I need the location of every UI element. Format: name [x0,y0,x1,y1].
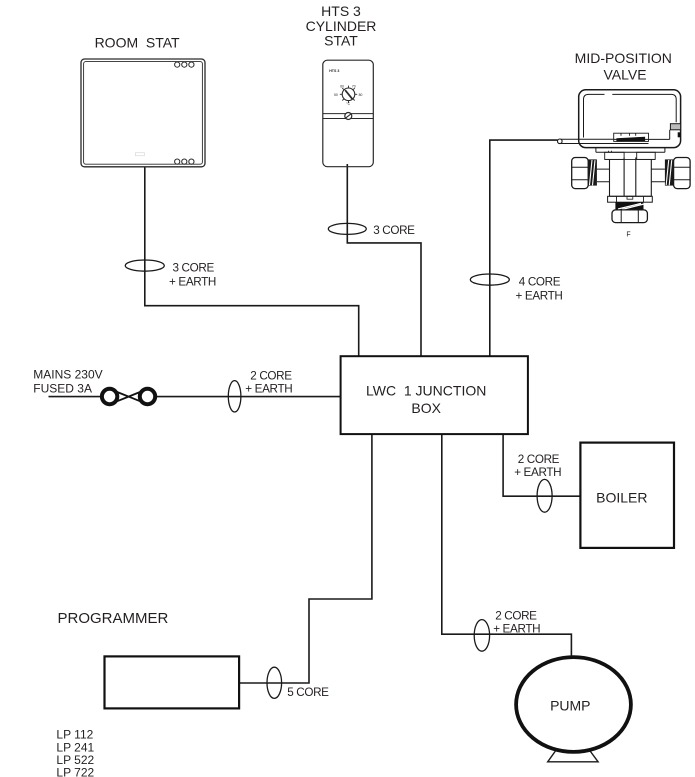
svg-text:2 CORE: 2 CORE [518,453,560,466]
svg-text:LWC 1 JUNCTION: LWC 1 JUNCTION [366,383,486,399]
svg-text:MAINS 230V: MAINS 230V [33,368,102,382]
svg-text:60: 60 [340,85,344,89]
svg-text:HTS 3: HTS 3 [329,69,339,73]
svg-text:CYLINDER: CYLINDER [306,18,377,34]
svg-text:2 CORE: 2 CORE [495,610,537,623]
svg-text:ROOM STAT: ROOM STAT [95,34,180,50]
svg-text:FUSED 3A: FUSED 3A [33,382,92,396]
svg-text:F: F [626,232,630,239]
svg-text:PROGRAMMER: PROGRAMMER [58,610,169,627]
svg-text:3 CORE: 3 CORE [373,224,415,237]
svg-text:°C: °C [346,102,350,106]
svg-text:70: 70 [352,85,356,89]
svg-text:BOILER: BOILER [596,489,647,505]
svg-text:5 CORE: 5 CORE [287,686,329,699]
svg-text:LP 722: LP 722 [56,765,94,777]
svg-text:HTS 3: HTS 3 [321,3,361,19]
svg-text:80: 80 [359,93,363,97]
svg-text:MID-POSITION: MID-POSITION [575,50,672,66]
svg-text:+ EARTH: + EARTH [245,383,292,396]
svg-text:+ EARTH: + EARTH [493,623,540,636]
svg-text:STAT: STAT [324,33,358,49]
svg-text:50: 50 [334,93,338,97]
svg-text:+ EARTH: + EARTH [514,466,561,479]
svg-text:VALVE: VALVE [603,67,646,83]
svg-text:+ EARTH: + EARTH [169,276,216,289]
svg-text:2 CORE: 2 CORE [250,370,292,383]
svg-text:+ EARTH: + EARTH [516,290,563,303]
svg-text:4 CORE: 4 CORE [519,276,561,289]
svg-text:BOX: BOX [411,400,441,416]
svg-text:3 CORE: 3 CORE [173,262,215,275]
svg-text:PUMP: PUMP [550,698,590,714]
